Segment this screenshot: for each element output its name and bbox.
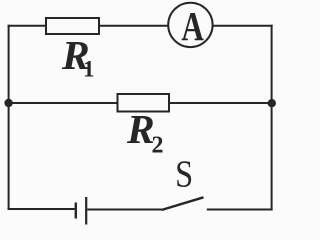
battery plate (short, negative) (75, 203, 77, 219)
svg-text:1: 1 (83, 57, 95, 82)
svg-text:R: R (126, 106, 155, 152)
switch S lever (162, 197, 204, 210)
svg-text:S: S (175, 152, 193, 195)
wire: middle rail, left node to R2 (9, 102, 118, 104)
wire: battery to switch pivot (87, 209, 162, 211)
resistor R1 (46, 18, 99, 34)
wire: left vertical rail (8, 25, 10, 210)
node: left junction dot (4, 99, 12, 107)
svg-text:A: A (181, 4, 204, 49)
wire: bottom rail, left corner to battery (8, 208, 75, 210)
wire: right vertical rail (271, 25, 273, 210)
resistor R2 (118, 94, 170, 112)
node: right junction dot (268, 99, 276, 107)
ammeter U1 body (168, 3, 212, 47)
wire: top rail, left corner to R1 (8, 25, 47, 27)
wire: top rail, ammeter to right corner (212, 25, 272, 27)
svg-text:2: 2 (152, 133, 164, 159)
wire: middle rail, R2 to right node (169, 102, 272, 104)
wire: bottom rail, switch to right corner (207, 209, 273, 211)
battery plate (long, positive) (85, 197, 87, 225)
wire: top rail, R1 to ammeter (99, 25, 169, 27)
